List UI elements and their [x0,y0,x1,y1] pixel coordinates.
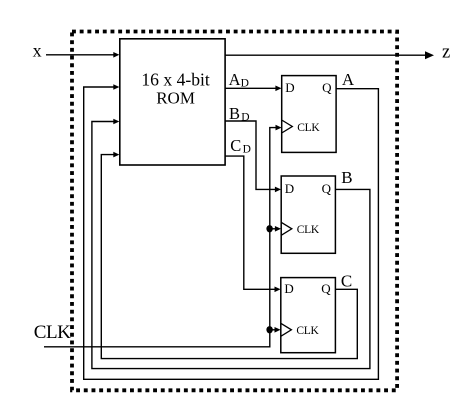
svg-text:CLK: CLK [297,122,320,134]
svg-text:D: D [284,281,293,296]
flip-flop A clock triangle [282,120,293,133]
flip-flop C box [281,278,336,353]
junction dot at FF C clock branch [266,326,272,333]
svg-text:D: D [243,144,251,156]
svg-text:C: C [230,136,241,155]
svg-text:C: C [341,272,352,291]
wire z output [225,54,426,56]
svg-text:CLK: CLK [34,322,71,343]
svg-text:B: B [229,104,240,123]
wire AD: ROM to FF A D input [225,87,276,89]
flip-flop A box [282,76,336,153]
svg-text:B: B [341,168,352,187]
svg-text:D: D [285,181,294,196]
dotted boundary box [72,32,397,391]
svg-text:CLK: CLK [297,224,320,236]
svg-text:A: A [229,70,241,89]
svg-text:x: x [33,41,42,61]
wire feedback B: Q of FF B around to ROM input 3 [92,122,370,369]
junction dot at FF B clock branch [266,225,272,232]
wire feedback C: Q of FF C around to ROM input 4 [101,155,357,359]
wire feedback A: Q of FF A around to ROM input 2 [84,87,379,379]
svg-text:Q: Q [321,281,331,296]
wire BD: ROM right, down, into FF B D input [225,121,276,189]
ROM U1 [120,39,225,165]
svg-text:A: A [342,70,355,89]
svg-text:Q: Q [322,181,332,196]
svg-text:Q: Q [322,80,332,95]
wire CD: ROM right, down, into FF C D input [225,156,276,289]
flip-flop B clock triangle [281,222,292,235]
svg-text:CLK: CLK [296,325,319,337]
svg-text:16 x 4-bit: 16 x 4-bit [141,69,210,89]
flip-flop C clock triangle [281,323,292,336]
svg-text:z: z [442,42,450,62]
svg-text:ROM: ROM [156,89,195,108]
flip-flop B box [281,176,335,253]
wire CLK branch to FF C clock [270,329,276,331]
svg-text:D: D [285,80,294,95]
wire CLK branch to FF B clock [270,228,276,230]
wire x input [46,54,115,56]
wire CLK: from label right, up riser to FF A clock [44,128,277,347]
svg-text:D: D [241,112,249,124]
